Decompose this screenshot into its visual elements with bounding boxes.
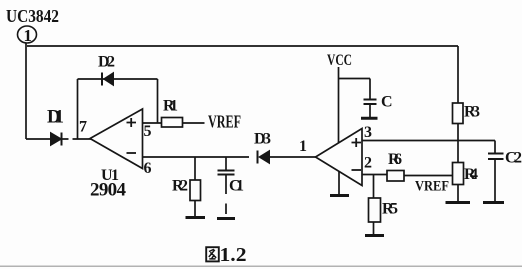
ground under R5 — [365, 234, 384, 237]
svg-text:2: 2 — [364, 155, 372, 172]
wire top horizontal from pin 1 to R3 column — [27, 45, 458, 47]
resistor R6 — [387, 171, 404, 182]
svg-text:R3: R3 — [464, 104, 480, 121]
wire branch to capacitor C — [339, 79, 371, 99]
svg-text:VREF: VREF — [208, 112, 241, 132]
wire feedback right vertical to pin 5 node — [157, 79, 159, 123]
op-amp U2 - input sign — [352, 169, 362, 171]
ground under R2 — [186, 216, 206, 219]
svg-text:D1: D1 — [47, 107, 64, 128]
ground under C — [361, 117, 378, 120]
ground under C1 — [217, 217, 235, 220]
svg-text:R1: R1 — [163, 98, 178, 115]
wire feedback left vertical — [77, 79, 79, 139]
wire R2 to ground — [194, 201, 196, 217]
svg-text:7: 7 — [79, 119, 87, 136]
svg-text:D3: D3 — [254, 131, 271, 148]
resistor R3 — [453, 103, 464, 124]
svg-text:R4: R4 — [464, 166, 478, 183]
ground under R4 — [446, 201, 471, 204]
svg-text:C2: C2 — [505, 150, 522, 167]
svg-text:R2: R2 — [172, 178, 188, 195]
wire R4 to ground — [457, 185, 459, 202]
resistor R2 — [190, 180, 201, 201]
wire R2 stub — [194, 157, 196, 180]
wire D1 cathode to op-amp output — [62, 138, 92, 140]
op-amp U1 (2904) — [90, 109, 143, 169]
svg-text:VCC: VCC — [327, 52, 352, 69]
svg-text:1.2: 1.2 — [220, 244, 247, 266]
bottom rule — [0, 265, 522, 267]
svg-text:R6: R6 — [388, 151, 402, 168]
caption 图1.2 — [206, 244, 246, 266]
wire R5 to ground — [373, 222, 375, 234]
capacitor C — [364, 100, 377, 118]
svg-text:R5: R5 — [382, 201, 398, 218]
svg-text:1: 1 — [24, 26, 33, 45]
svg-text:5: 5 — [144, 123, 152, 140]
wire right column vertical top — [457, 46, 459, 103]
ground under C2 — [483, 201, 504, 204]
wire R5 stub — [373, 175, 375, 198]
svg-text:UC3842: UC3842 — [6, 6, 59, 26]
op-amp U1 + input sign — [127, 118, 137, 127]
wire pin 2 stub to R6 — [362, 174, 387, 176]
ground under op-amp U2 — [330, 194, 349, 197]
capacitor C2 — [488, 141, 504, 202]
diode D2 — [102, 73, 114, 86]
wire pin 5 stub to R1 — [143, 122, 162, 124]
diode D1 — [51, 133, 62, 146]
capacitor C1 — [218, 157, 235, 214]
svg-text:1: 1 — [299, 138, 307, 155]
diode D3 — [258, 151, 270, 164]
wire left vertical from pin 1 down — [25, 43, 27, 139]
wire D3 to op-amp U2 — [270, 156, 316, 158]
resistor R5 — [369, 198, 381, 222]
svg-text:2904: 2904 — [90, 180, 127, 201]
wire feedback top horizontal — [78, 78, 158, 80]
svg-text:C: C — [381, 94, 393, 111]
op-amp U2 + input sign — [352, 138, 362, 147]
wire pin 6 horizontal net — [143, 156, 250, 158]
wire VCC vertical to op-amp top edge — [338, 67, 340, 143]
wire pin 3 horizontal net — [362, 140, 495, 142]
op-amp U2 — [316, 129, 363, 186]
wire to D1 anode — [26, 138, 51, 140]
op-amp U1 - input sign — [127, 152, 137, 154]
svg-text:C1: C1 — [229, 178, 244, 195]
svg-text:D2: D2 — [98, 54, 115, 71]
resistor R4 — [453, 163, 464, 185]
resistor R1 — [162, 118, 183, 128]
svg-text:6: 6 — [144, 160, 152, 177]
wire op-amp U2 V- to ground — [338, 171, 340, 194]
wire R3 to R4 — [457, 124, 459, 163]
wire R6 to R4 column — [404, 175, 453, 177]
svg-text:3: 3 — [364, 124, 372, 141]
svg-text:VREF: VREF — [415, 179, 449, 195]
pin 1 terminal of UC3842 — [18, 26, 37, 45]
wire R1 to VREF — [183, 122, 205, 124]
